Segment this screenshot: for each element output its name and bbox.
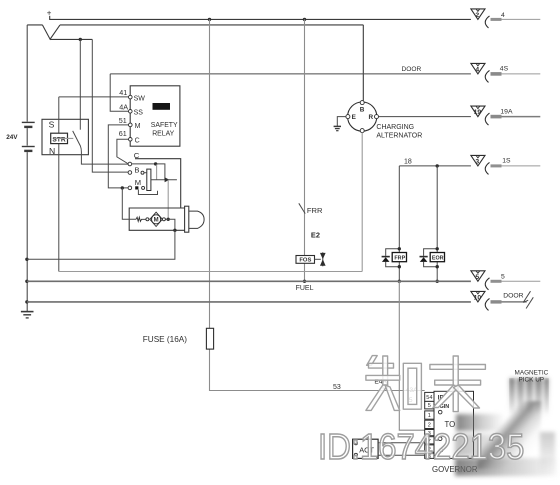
svg-text:MAGNETIC: MAGNETIC [515,370,549,377]
watermark character mo [430,356,486,412]
connector J4 (wire 4S) [471,63,540,82]
node: battery to fuel bus [25,280,28,283]
connector J5 (wire 5) [471,271,540,290]
wire: DOOR bus [27,301,471,303]
starter motor M1 frame [129,208,184,230]
wire: relay SS up to door line [110,74,128,111]
wire: alternator R to connector 19 [379,116,471,118]
solenoid internal wire from C [132,164,165,180]
wire: relay M down to solenoid M [108,125,128,188]
wire: ACT lower lead to governor [378,454,425,456]
relay terminal SS circle [129,110,133,114]
wire: FOS to valve [315,258,321,260]
motor M circle [152,215,161,224]
wire: FUEL bus [27,280,471,282]
governor terminal strip [425,392,434,458]
solenoid B stub [144,172,147,174]
wire: alternator bottom return to key switch N [59,133,362,272]
node: solenoid M junction to motor [121,186,124,189]
motor right terminal circle [162,218,165,221]
node: FOS wire to fuel bus [303,280,306,283]
charging alternator G1 [346,101,379,133]
node: junction of FOS wire on line A [303,18,306,21]
wire: feed to key switch blade contact [79,39,81,129]
wire: top supply line A to connector 2 [50,18,471,20]
fuel shutoff solenoid FOS box [296,256,315,264]
wire: DOOR line to connector 4 [110,73,471,75]
battery BAT1 24V [6,25,35,311]
wire: alternator E to ground [337,117,346,126]
motor left terminal circle [146,218,149,221]
node: battery to motor return [25,258,28,261]
switch FRR blade [299,203,305,213]
governor body box [434,391,474,458]
starter pinion housing bars [185,206,189,232]
wire: STR link to blade [54,137,74,139]
solenoid contact bar [147,169,151,190]
wire: FOS feed from line A down to fuel bus [304,19,306,281]
starter pinion bell [189,211,204,228]
fuse F1 body [206,328,213,349]
watermark character zhi [366,356,422,411]
solenoid terminal B circle [128,171,132,175]
ground: alternator ground [334,126,341,130]
safety relay blacked-out name [153,103,171,110]
governor strip pin numbers [426,395,432,460]
connector J10 (wire DOOR) [471,291,533,310]
relay terminal M circle [129,123,133,127]
motor brush zigzag [136,217,146,221]
svg-text:PICK UP: PICK UP [519,377,545,384]
valve symbol at FOS [322,252,324,266]
node: junction of fuse wire on line A [208,18,211,21]
wire: line 18 to connector 3 [399,165,471,167]
relay EOR with diode [420,166,445,283]
wire: battery plus stub [49,16,51,20]
governor terminal circles [438,410,442,414]
relay terminal C circle [129,138,133,142]
connector J2 (wire 4) [471,9,540,28]
wire: S/N line through key switch down to alternator return [58,97,60,272]
solenoid plunger link [156,165,158,181]
key switch blade and start output to solenoid C [73,131,129,164]
node: motor output junction [167,218,170,221]
connector J19 (wire 19A) [471,106,540,125]
node: junction on apex wire [79,38,82,41]
wire: motor return to battery negative [27,230,175,259]
node: EOR tap on line 18 [436,164,439,167]
key switch STR box [51,133,68,143]
wire: feed to starter solenoid B terminal [92,39,128,172]
watermark character zhi inner hole [408,368,417,404]
wire: solenoid output down to motor [167,180,169,220]
key switch S1 box [42,119,88,154]
solenoid terminal M circle [128,186,132,190]
motor diamond [150,212,163,226]
solenoid coil bottom [138,190,157,195]
connector J3 (wire 1S) [471,155,540,174]
starter solenoid K1 enclosure [135,159,181,208]
ground: battery negative ground [21,312,34,318]
solenoid terminal C circle [128,162,132,166]
wire: below terminal apex feeding key switch branches [50,38,92,40]
actuator ACT box [353,439,379,458]
wire: relay C down to solenoid C [117,139,129,164]
wire: relay SW to key switch S [59,96,129,98]
wire: supply line B from battery with V terminal and drop to alternator [27,25,363,101]
relay terminal SW circle [129,95,133,99]
node: battery to door bus [25,300,28,303]
solenoid actuation line with arrow [151,179,177,181]
wire: fuse feed from line A down to fuse and governor pin 54 [210,19,425,390]
watermark ID number [318,426,524,468]
solenoid M inner circle [142,186,145,189]
solenoid M filled square [135,186,138,189]
wire: solenoid M terminal down to motor [122,188,136,219]
relay FRP with diode [382,166,407,283]
wire: fuel bus branch down to governor [399,281,424,430]
node: junction on solenoid C internal wire [154,162,157,165]
wire: ACT upper lead to governor [378,442,425,444]
solenoid B inner circle [141,171,144,174]
safety relay U1 box [130,86,180,146]
wire: motor to return drop [165,219,175,230]
node: junction on motor frame bottom [173,229,176,232]
